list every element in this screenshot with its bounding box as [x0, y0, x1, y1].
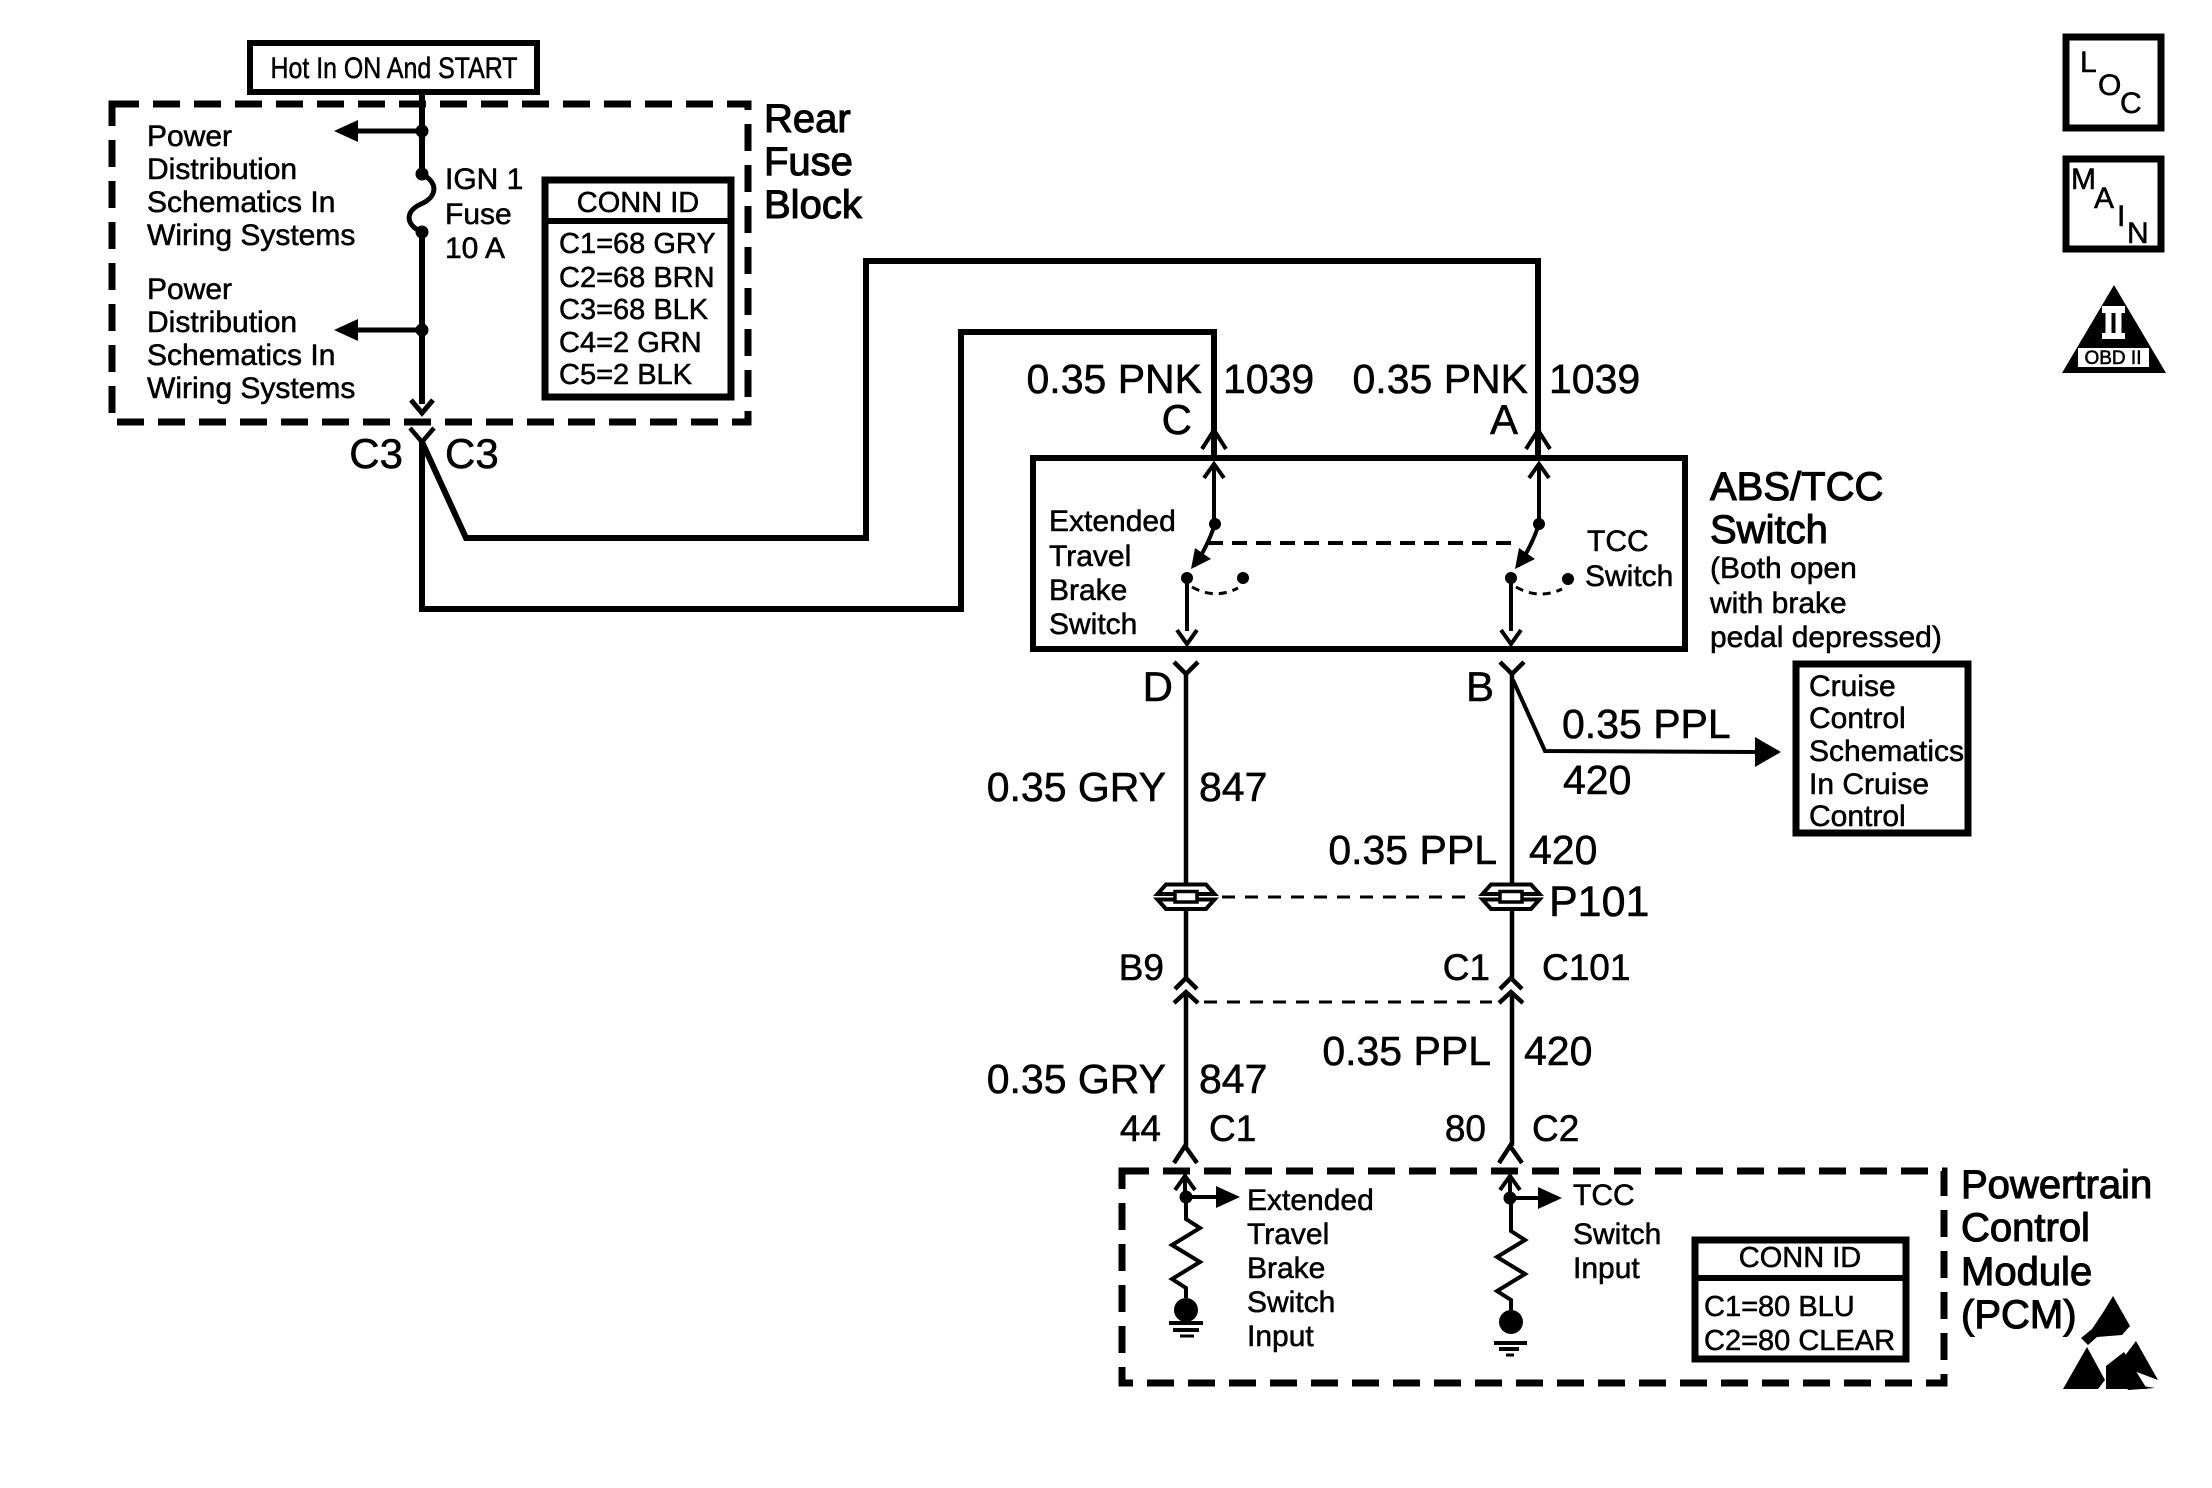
svg-text:C3: C3: [445, 430, 499, 477]
svg-text:Control: Control: [1809, 800, 1906, 833]
svg-text:C3=68 BLK: C3=68 BLK: [559, 294, 709, 326]
svg-text:Extended: Extended: [1049, 505, 1176, 538]
svg-text:Cruise: Cruise: [1809, 670, 1896, 703]
svg-text:TCC: TCC: [1587, 525, 1649, 558]
connector C101 chevrons (left, pin B9): [1174, 978, 1198, 1003]
svg-text:847: 847: [1199, 1056, 1267, 1102]
svg-text:44: 44: [1120, 1108, 1161, 1149]
label: Extended Travel Brake Switch: [1049, 505, 1176, 641]
svg-text:I: I: [2117, 200, 2125, 233]
label: 0.35 PNK 1039 (right): [1353, 356, 1641, 402]
wire+arrow: to power distribution (lower): [334, 319, 422, 341]
svg-text:Distribution: Distribution: [147, 306, 297, 339]
svg-text:A: A: [1490, 396, 1518, 443]
svg-text:Switch: Switch: [1049, 608, 1137, 641]
resistor R1 (pull-up): [1172, 1197, 1200, 1298]
wire+arrow: tap to cruise control: [1513, 680, 1781, 767]
svg-text:Block: Block: [764, 183, 863, 227]
Rear Fuse Block dashed outline: [112, 104, 748, 422]
link: C101 halves (dashed): [1204, 1001, 1492, 1004]
svg-text:with brake: with brake: [1709, 587, 1847, 620]
svg-text:Input: Input: [1247, 1320, 1314, 1353]
label: ABS/TCC Switch: [1710, 465, 1883, 552]
svg-text:Switch: Switch: [1573, 1218, 1661, 1251]
svg-text:(Both open: (Both open: [1710, 552, 1857, 585]
svg-text:D: D: [1143, 663, 1173, 710]
label: TCC Switch: [1585, 525, 1673, 593]
wire: 0.35 PNK 1039 to TCC switch pin A: [422, 261, 1538, 538]
pin D: [1143, 662, 1198, 710]
svg-text:C3: C3: [349, 430, 403, 477]
svg-text:(PCM): (PCM): [1961, 1293, 2077, 1337]
wire+arrow: to power distribution (upper): [334, 120, 422, 142]
svg-text:Travel: Travel: [1049, 540, 1131, 573]
svg-text:Wiring Systems: Wiring Systems: [147, 372, 355, 405]
svg-text:TCC: TCC: [1573, 1179, 1635, 1212]
label: 0.35 PPL 420 (upper): [1328, 827, 1597, 873]
svg-text:Extended: Extended: [1247, 1184, 1374, 1217]
svg-text:C1: C1: [1443, 947, 1490, 988]
svg-text:Switch: Switch: [1710, 508, 1828, 552]
svg-text:OBD II: OBD II: [2084, 348, 2141, 369]
svg-text:C101: C101: [1542, 947, 1630, 988]
svg-text:Control: Control: [1961, 1206, 2090, 1250]
wire: 0.35 PNK 1039 to brake switch pin C: [422, 332, 1214, 609]
svg-text:CONN ID: CONN ID: [577, 187, 699, 219]
svg-text:A: A: [2094, 182, 2114, 215]
svg-text:C1: C1: [1209, 1108, 1256, 1149]
svg-text:420: 420: [1529, 827, 1597, 873]
connector P101 (right half, PPL wire): [1483, 885, 1540, 910]
svg-text:In Cruise: In Cruise: [1809, 768, 1929, 801]
svg-text:L: L: [2080, 46, 2097, 79]
svg-text:Schematics In: Schematics In: [147, 339, 335, 372]
svg-text:C1=80 BLU: C1=80 BLU: [1704, 1291, 1855, 1323]
note: Power Distribution Schematics In Wiring Systems (upper): [147, 120, 355, 252]
svg-text:Powertrain: Powertrain: [1961, 1163, 2152, 1207]
svg-text:M: M: [2071, 163, 2096, 196]
ground (right): [1494, 1343, 1527, 1355]
note: Power Distribution Schematics In Wiring Systems (lower): [147, 273, 355, 405]
svg-text:1039: 1039: [1549, 356, 1640, 402]
symbol: ESD sensitive device: [2063, 1296, 2158, 1390]
svg-text:Rear: Rear: [764, 97, 851, 141]
switch S2: TCC switch: [1501, 464, 1574, 644]
svg-text:Brake: Brake: [1247, 1252, 1325, 1285]
svg-text:B9: B9: [1119, 947, 1164, 988]
svg-text:420: 420: [1563, 757, 1631, 803]
svg-text:P101: P101: [1549, 878, 1649, 926]
mechanical link (dashed): [1208, 541, 1512, 545]
label: IGN 1 Fuse 10 A: [445, 163, 523, 265]
note: Both open with brake pedal depressed: [1709, 552, 1942, 654]
svg-text:CONN ID: CONN ID: [1739, 1242, 1861, 1274]
svg-text:80: 80: [1445, 1108, 1486, 1149]
wire: fuse output: [419, 232, 425, 404]
connector C101 chevrons (right, pin C1): [1499, 978, 1523, 1003]
svg-text:C5=2 BLK: C5=2 BLK: [559, 359, 693, 391]
pin 44 C1: [1120, 1108, 1256, 1163]
wire: PPL 420 below P101: [1510, 909, 1515, 978]
svg-text:Power: Power: [147, 273, 232, 306]
pin B: [1466, 662, 1524, 710]
svg-text:IGN 1: IGN 1: [445, 163, 523, 196]
svg-text:847: 847: [1199, 764, 1267, 810]
label: Extended Travel Brake Switch Input: [1247, 1184, 1374, 1353]
svg-text:Schematics: Schematics: [1809, 735, 1964, 768]
PCM input: extended travel brake switch input: [1175, 1176, 1240, 1208]
table: CONN ID (PCM): [1695, 1240, 1906, 1359]
svg-text:O: O: [2098, 69, 2121, 102]
connector C3: [349, 428, 498, 477]
label: 0.35 GRY 847 (lower): [987, 1056, 1268, 1102]
svg-text:Module: Module: [1961, 1250, 2092, 1294]
svg-text:C2=80 CLEAR: C2=80 CLEAR: [1704, 1325, 1895, 1357]
svg-text:Schematics In: Schematics In: [147, 186, 335, 219]
link: P101 halves (dashed): [1222, 896, 1474, 899]
wire: GRY 847 from pin D: [1184, 674, 1189, 884]
svg-text:Input: Input: [1573, 1252, 1640, 1285]
PCM dashed outline: [1122, 1171, 1944, 1383]
wire: GRY 847 below P101: [1184, 909, 1189, 978]
svg-text:Brake: Brake: [1049, 574, 1127, 607]
internal source ball (right): [1499, 1310, 1523, 1334]
node: feed junction lower: [416, 324, 429, 337]
svg-text:Wiring Systems: Wiring Systems: [147, 219, 355, 252]
svg-text:Travel: Travel: [1247, 1218, 1329, 1251]
label: TCC Switch Input: [1573, 1179, 1661, 1285]
switch S1: extended travel brake switch: [1177, 464, 1249, 644]
svg-text:Control: Control: [1809, 702, 1906, 735]
svg-text:0.35 PPL: 0.35 PPL: [1322, 1028, 1491, 1074]
PCM input: TCC switch input: [1500, 1176, 1562, 1209]
svg-text:Fuse: Fuse: [445, 198, 512, 231]
pin 80 C2: [1445, 1108, 1579, 1163]
svg-text:0.35 GRY: 0.35 GRY: [987, 1056, 1166, 1102]
label: Powertrain Control Module (PCM): [1961, 1163, 2152, 1337]
svg-text:Switch: Switch: [1247, 1286, 1335, 1319]
svg-text:0.35 GRY: 0.35 GRY: [987, 764, 1166, 810]
svg-text:C: C: [2120, 87, 2142, 120]
svg-text:B: B: [1466, 663, 1494, 710]
label: 0.35 PPL 420 (tap): [1562, 701, 1731, 803]
svg-text:C1=68 GRY: C1=68 GRY: [559, 228, 716, 260]
pin C: [1162, 396, 1226, 449]
svg-text:Power: Power: [147, 120, 232, 153]
svg-text:0.35 PPL: 0.35 PPL: [1328, 827, 1497, 873]
wire: ignition feed from Hot In box: [419, 92, 425, 174]
symbol: OBD II triangle: [2062, 285, 2166, 373]
connector P101 (left half, GRY wire): [1158, 885, 1215, 910]
svg-text:Distribution: Distribution: [147, 153, 297, 186]
svg-text:0.35 PPL: 0.35 PPL: [1562, 701, 1731, 747]
svg-text:Fuse: Fuse: [764, 140, 853, 184]
ABS/TCC switch box: [1033, 458, 1685, 649]
wire: PPL 420 to PCM: [1510, 992, 1515, 1146]
label: 0.35 PNK 1039 (left): [1027, 356, 1315, 402]
box: Hot In ON And START: [250, 43, 537, 92]
symbol: MAIN box: [2066, 159, 2161, 250]
svg-text:C2: C2: [1532, 1108, 1579, 1149]
svg-text:C: C: [1162, 396, 1192, 443]
node: feed junction upper: [416, 125, 429, 138]
svg-text:pedal depressed): pedal depressed): [1710, 621, 1942, 654]
svg-text:10 A: 10 A: [445, 232, 505, 265]
svg-text:N: N: [2127, 217, 2149, 250]
wire: GRY 847 to PCM: [1184, 992, 1189, 1146]
arrow: feed leaving fuse block: [411, 400, 433, 413]
svg-text:Hot In ON And START: Hot In ON And START: [271, 52, 518, 85]
pin A: [1490, 396, 1550, 449]
label: 0.35 PPL 420 (lower): [1322, 1028, 1592, 1074]
internal source ball: [1174, 1298, 1198, 1322]
symbol: LOC box: [2066, 37, 2161, 128]
svg-text:Switch: Switch: [1585, 560, 1673, 593]
fuse F: IGN 1 Fuse 10 A: [409, 168, 434, 239]
ground (left): [1169, 1323, 1203, 1336]
svg-text:ABS/TCC: ABS/TCC: [1710, 465, 1883, 509]
table: CONN ID (rear fuse block): [545, 180, 731, 397]
svg-text:420: 420: [1524, 1028, 1592, 1074]
resistor R2 (pull-up): [1497, 1198, 1525, 1310]
svg-text:C2=68 BRN: C2=68 BRN: [559, 262, 715, 294]
wire: PPL 420 from pin B: [1510, 674, 1515, 885]
svg-text:1039: 1039: [1223, 356, 1314, 402]
label: Rear Fuse Block: [764, 97, 863, 227]
svg-text:C4=2 GRN: C4=2 GRN: [559, 327, 702, 359]
label: 0.35 GRY 847 (upper): [987, 764, 1268, 810]
box: Cruise Control Schematics In Cruise Control: [1796, 664, 1968, 833]
